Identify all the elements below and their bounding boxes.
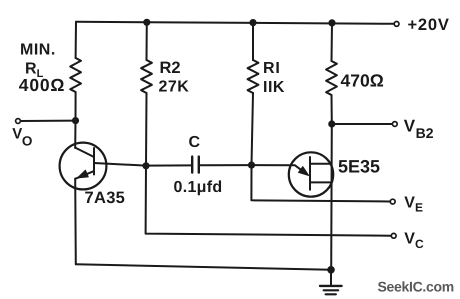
junction dot Vo node <box>72 117 79 124</box>
transistor Q1 upper diagonal <box>75 148 94 157</box>
wire 7A35 emitter top <box>74 121 76 148</box>
terminal VB2 <box>392 122 397 127</box>
svg-text:R2: R2 <box>160 59 181 77</box>
svg-text:SeekIC.com: SeekIC.com <box>378 279 454 295</box>
transistor Q2 5E35 circle <box>289 152 333 196</box>
capacitor C plate right <box>198 157 200 173</box>
svg-text:5E35: 5E35 <box>338 157 380 177</box>
svg-text:C: C <box>189 134 201 151</box>
svg-text:MIN.: MIN. <box>20 42 56 59</box>
wire capacitor to R1 junction <box>200 164 252 166</box>
svg-text:+20V: +20V <box>408 16 450 34</box>
wire VB2 terminal lead <box>332 123 392 125</box>
wire Vo terminal lead <box>20 120 75 122</box>
svg-text:27K: 27K <box>159 79 190 96</box>
resistor R2 27K <box>141 60 152 93</box>
svg-text:RI: RI <box>263 60 281 77</box>
terminal VC <box>391 233 396 238</box>
transistor Q2 bar <box>309 157 311 190</box>
wire R2 branch upper <box>146 22 148 60</box>
wire 470 lower to VB2 node and down to ground node <box>330 95 333 270</box>
svg-text:0.1μfd: 0.1μfd <box>174 179 223 196</box>
wire base of Q1 to R2 junction <box>94 163 146 166</box>
junction dot R2-cap node <box>142 162 149 169</box>
terminal VE <box>390 199 395 204</box>
resistor RL 400 ohm <box>70 58 81 92</box>
wire R2 node down to Vc corner <box>146 166 391 236</box>
wire 470 branch upper <box>331 23 334 61</box>
transistor Q2 arrow <box>299 167 309 176</box>
resistor R1 11K <box>248 60 259 93</box>
junction dot R1-cap node <box>248 162 255 169</box>
wire RL branch upper <box>75 22 77 58</box>
wire R1 lower <box>252 93 254 165</box>
resistor 470 ohm <box>326 61 337 95</box>
transistor Q1 arrow <box>78 170 89 178</box>
junction dot top rail R2 <box>143 19 150 26</box>
wire R2 lower <box>145 93 148 166</box>
svg-text:IIK: IIK <box>263 79 285 96</box>
junction dot VB2 node <box>328 120 335 127</box>
svg-text:400Ω: 400Ω <box>19 75 65 95</box>
terminal Vo <box>16 119 21 124</box>
transistor Q2 upper lead <box>310 163 331 165</box>
ground symbol <box>320 285 342 287</box>
terminal +20V <box>394 22 399 27</box>
wire base lead of Q2 <box>252 165 307 174</box>
wire junction to capacitor <box>146 164 191 166</box>
transistor Q1 lower diagonal <box>75 171 93 179</box>
transistor Q2 lower lead <box>310 181 331 183</box>
wire ground stem <box>330 270 332 285</box>
svg-text:470Ω: 470Ω <box>341 71 384 91</box>
wire top +20V rail <box>76 22 394 24</box>
transistor Q1 base bar <box>93 148 95 175</box>
wire R1 branch upper <box>252 23 254 60</box>
transistor Q1 7A35 circle <box>60 143 107 190</box>
junction dot top rail R1 <box>249 19 256 26</box>
junction dot top rail 470 <box>328 19 335 26</box>
wire RL lower to Vo node <box>75 92 77 121</box>
capacitor C plate left <box>191 157 193 173</box>
svg-text:7A35: 7A35 <box>85 189 126 207</box>
wire node down to Ve corner <box>251 165 390 201</box>
wire bottom rail to ground node <box>76 264 331 270</box>
junction dot ground node <box>327 266 335 274</box>
wire 7A35 collector down <box>74 179 77 264</box>
